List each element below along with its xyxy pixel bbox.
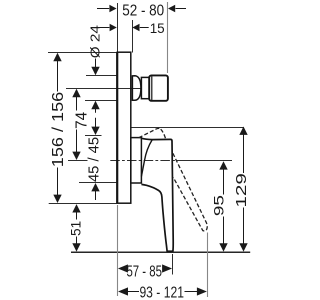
diverter knob end cap (149, 75, 168, 100)
diverter knob dome (132, 76, 141, 101)
dashed lever top edge (open position) (139, 128, 161, 137)
extension line knob bottom (85, 100, 117, 102)
extension line 57-85 right (172, 254, 174, 275)
dimension 129 (239, 127, 247, 135)
dimension 74 (72, 89, 80, 97)
bottom reference line (71, 251, 250, 253)
extension line bottom left (gray) (117, 205, 119, 296)
svg-text:74: 74 (74, 112, 91, 129)
dashed lever front edge upper (open position) (161, 129, 166, 138)
diverter knob neck (141, 77, 149, 98)
extension line wall (gray) (167, 2, 169, 73)
svg-text:95: 95 (211, 195, 227, 216)
dimension 57 - 85 (118, 264, 128, 272)
svg-text:15: 15 (150, 20, 165, 36)
extension line 45/45 bottom (79, 182, 117, 184)
wall plate escutcheon (117, 52, 131, 203)
center line lever axis (110, 160, 176, 162)
svg-text:45 / 45: 45 / 45 (86, 137, 103, 182)
svg-text:Ø 24: Ø 24 (88, 25, 103, 58)
extension line knob top (86, 75, 117, 77)
svg-text:93 - 121: 93 - 121 (139, 284, 184, 300)
extension line lever axis right (176, 160, 232, 162)
center line lever axis left (68, 160, 88, 162)
dimension diameter 24 (88, 25, 103, 127)
dimension 156 / 156 (53, 53, 61, 61)
knob cap inner edge (151, 76, 153, 100)
svg-text:52 - 80: 52 - 80 (122, 2, 164, 19)
dimension 93 - 121 (118, 287, 128, 295)
dimension 45 / 45 (91, 127, 99, 135)
lever base ring (131, 138, 142, 183)
svg-text:57 - 85: 57 - 85 (126, 263, 162, 280)
extension line 45/45 top (85, 135, 102, 137)
dimension 51 (72, 204, 80, 212)
extension line 93-121 right (gray) (207, 233, 209, 298)
extension line 15 right side (132, 20, 134, 53)
svg-text:129: 129 (234, 173, 250, 208)
dimension 52 - 80 (97, 8, 109, 10)
center line knob (66, 88, 141, 90)
dashed lever front edge lower and tip (open position) (173, 153, 207, 231)
svg-text:51: 51 (68, 221, 83, 236)
extension line lever top (131, 127, 244, 129)
extension line plate bottom (49, 203, 117, 205)
svg-text:156 / 156: 156 / 156 (50, 92, 67, 168)
lever handle outline (141, 138, 173, 251)
dimension 15 (97, 27, 109, 29)
dimension 95 (219, 161, 227, 169)
extension line plate top (48, 52, 117, 54)
lever boss inner slant (141, 140, 152, 177)
extension line plate front (top) (117, 3, 119, 52)
